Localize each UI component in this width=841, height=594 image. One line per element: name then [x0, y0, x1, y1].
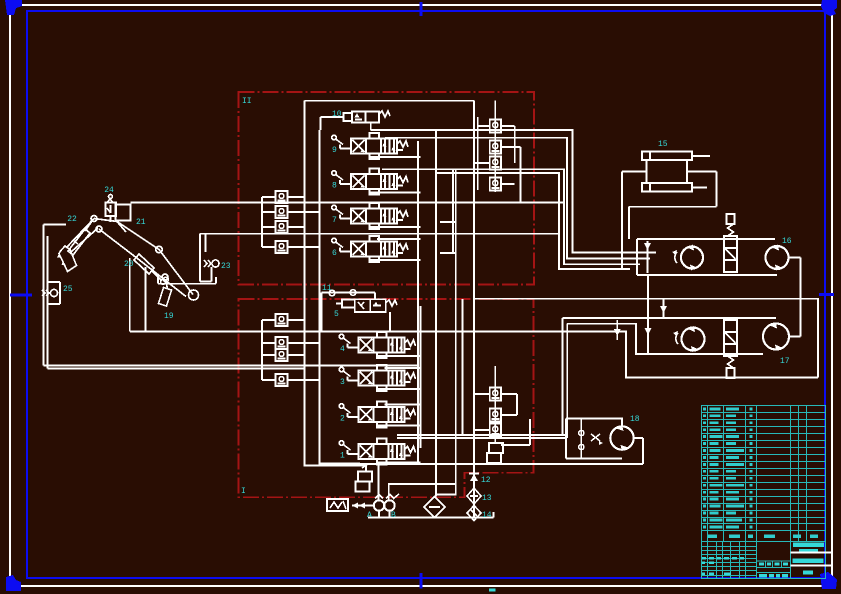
relief valve 23 — [200, 234, 219, 282]
wire valve 4 drain — [378, 355, 421, 357]
wire valve 8 drain — [370, 192, 421, 194]
svg-text:14: 14 — [482, 511, 492, 520]
wire cyl19 bracket a — [129, 258, 131, 332]
pump drive arrow — [352, 503, 374, 509]
travel motor circuit 17 — [614, 275, 801, 378]
wire valve 1 drain — [378, 462, 421, 464]
svg-text:25: 25 — [63, 285, 73, 294]
excavator base link — [158, 276, 216, 284]
wire riser T6 — [477, 117, 479, 190]
wire pressure line P4 — [435, 173, 630, 269]
svg-text:20: 20 — [124, 260, 134, 269]
directional valve 9 — [332, 133, 408, 159]
directional valve 3 — [339, 365, 415, 391]
svg-text:8: 8 — [332, 182, 337, 191]
boom cylinder 19 — [159, 277, 172, 306]
svg-text:13: 13 — [482, 494, 492, 503]
svg-text:II: II — [242, 97, 252, 106]
corner mark bottom-right — [820, 572, 837, 589]
svg-text:2: 2 — [340, 415, 345, 424]
wire bank box top — [305, 100, 475, 102]
svg-text:24: 24 — [104, 186, 114, 195]
valve 13 — [467, 488, 481, 504]
wire boom line upper — [131, 202, 565, 204]
svg-text:21: 21 — [136, 218, 146, 227]
svg-text:I: I — [241, 487, 246, 496]
wire riser T5 — [473, 101, 475, 518]
wire valve 2 bridge — [385, 404, 421, 406]
center tick top — [420, 2, 423, 16]
corner mark top-right — [821, 0, 837, 16]
wire riser T2 — [420, 306, 422, 448]
svg-text:15: 15 — [658, 140, 668, 149]
wire left top link — [44, 224, 66, 226]
svg-text:12: 12 — [481, 476, 491, 485]
wire valve 6 bridge — [377, 238, 421, 240]
wire pressure line P2 — [385, 138, 650, 259]
check valve column upper — [474, 101, 521, 203]
wire stub v7a — [440, 221, 455, 223]
wire swing line a — [397, 434, 566, 436]
wire pressure line P1 — [371, 130, 656, 253]
svg-text:1: 1 — [340, 452, 345, 461]
corner mark top-left — [5, 0, 22, 15]
title block separator white 2 — [791, 565, 832, 567]
excavator boom — [94, 219, 199, 301]
svg-text:3: 3 — [340, 378, 345, 387]
pilot valve 10 — [321, 111, 391, 130]
wire return line — [474, 299, 818, 378]
wire arm line lower b — [48, 368, 305, 370]
svg-text:11: 11 — [322, 284, 332, 293]
shuttle valve cluster lower — [262, 314, 320, 386]
wire swing line b — [397, 437, 566, 439]
group box I (red dashed) — [239, 299, 534, 497]
center tick left — [10, 294, 32, 297]
wire pump A up — [378, 462, 380, 501]
svg-text:B: B — [391, 511, 396, 520]
directional valve 4 — [339, 332, 415, 358]
wire motor17 feed b2 — [567, 324, 682, 354]
wire pump B up — [389, 484, 455, 501]
wire valve 9 drain — [370, 156, 421, 158]
check valve 12 — [469, 457, 479, 518]
wire riser T2b — [462, 299, 464, 435]
title block separator white 1 — [791, 552, 832, 554]
relief valve 24 — [106, 195, 117, 223]
title block table — [702, 406, 826, 579]
center tick bottom — [420, 573, 423, 589]
pilot line 11 — [322, 290, 376, 332]
wire riser T1 — [417, 141, 419, 463]
svg-text:6: 6 — [332, 249, 337, 258]
check valve column lower — [474, 366, 530, 445]
block 21 — [116, 205, 131, 221]
directional valve 1 — [339, 439, 415, 465]
wire cyl19 bracket b — [145, 267, 147, 332]
wire arm line upper — [130, 332, 818, 378]
wire valve 6 drain — [370, 259, 421, 261]
wire valve 3 drain — [378, 388, 421, 390]
cylinder 15 — [622, 152, 717, 271]
svg-text:A: A — [367, 511, 372, 520]
wire bank inner left — [320, 130, 361, 464]
excavator stick — [66, 216, 102, 253]
svg-text:10: 10 — [332, 110, 342, 119]
directional valve 6 — [332, 236, 408, 262]
svg-text:18: 18 — [630, 415, 640, 424]
wire stub v7b — [440, 252, 455, 254]
svg-text:22: 22 — [67, 215, 77, 224]
valve 14 — [467, 506, 481, 521]
directional valve 7 — [332, 203, 408, 229]
corner mark bottom-left — [6, 575, 21, 591]
bucket cylinder 22 — [68, 221, 92, 255]
svg-text:7: 7 — [332, 216, 337, 225]
svg-text:23: 23 — [221, 262, 231, 271]
wire swing return — [360, 463, 643, 465]
excavator bucket — [57, 246, 77, 272]
wire motor17 feed a — [562, 318, 564, 435]
shuttle valve cluster upper — [262, 191, 320, 253]
wire valve 3 bridge — [385, 367, 421, 369]
svg-text:19: 19 — [164, 312, 174, 321]
directional valve 2 — [339, 402, 415, 428]
return strainer S1 — [356, 464, 373, 492]
main filter — [424, 497, 445, 518]
wire left riser b — [47, 236, 49, 369]
group box II (red dashed) — [239, 92, 535, 285]
paper mark bottom — [489, 589, 496, 592]
directional valve 8 — [332, 169, 408, 195]
travel motor circuit 16 — [637, 214, 801, 337]
stick cylinder 20 — [134, 254, 165, 284]
wire arm line lower a — [44, 365, 418, 367]
center tick right — [819, 293, 834, 296]
pump B — [384, 494, 399, 518]
wire pressure line P3 — [382, 169, 640, 264]
pilot valve 5 — [336, 293, 397, 332]
svg-text:5: 5 — [334, 310, 339, 319]
wire motor17 feed a2 — [563, 317, 676, 319]
wire riser T4 — [436, 169, 456, 494]
svg-text:17: 17 — [780, 357, 790, 366]
svg-text:4: 4 — [340, 345, 345, 354]
wire riser T4b — [452, 169, 454, 253]
wire motor17 feed b — [566, 324, 568, 438]
engine M box — [327, 499, 348, 511]
strainer S2 — [487, 443, 503, 463]
wire boom line lower — [200, 233, 560, 235]
swing motor 18 block — [566, 419, 643, 465]
svg-text:9: 9 — [332, 146, 337, 155]
wire valve 2 drain — [378, 425, 421, 427]
wire bank box left — [305, 101, 367, 466]
wire riser T3 — [435, 130, 437, 497]
svg-text:16: 16 — [782, 237, 792, 246]
pump A — [374, 495, 384, 518]
wire left riser a — [43, 225, 45, 366]
relief valve 25 — [42, 282, 60, 304]
wire tank line — [368, 517, 494, 519]
wire tank tick — [493, 512, 495, 518]
wire valve 7 drain — [370, 226, 421, 228]
